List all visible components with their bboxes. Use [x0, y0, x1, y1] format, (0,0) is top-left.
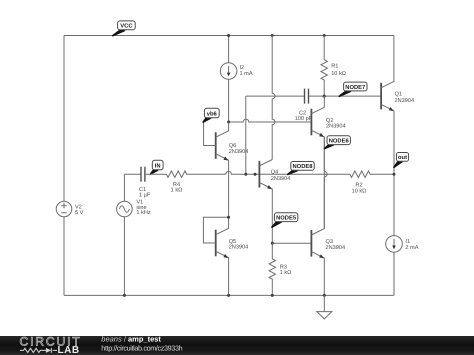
transistor Q5 diode connected	[203, 174, 228, 295]
junction dot out	[393, 173, 396, 176]
wire input row mid	[226, 171, 350, 174]
svg-text:IN: IN	[155, 163, 161, 169]
resistor R1	[321, 36, 327, 97]
node NODE8 flag	[288, 162, 314, 175]
svg-text:NODE8: NODE8	[293, 163, 314, 170]
transistor Q2	[311, 96, 324, 137]
capacitor C1	[141, 167, 145, 182]
node NODE5 flag	[272, 213, 298, 227]
svg-text:I1: I1	[405, 239, 410, 245]
wire input row	[124, 173, 141, 175]
transistor Q1	[381, 81, 394, 111]
junction dot bottom x272.3	[271, 294, 274, 297]
svg-text:1 µF: 1 µF	[139, 192, 151, 198]
wire bottom rail	[64, 294, 394, 296]
junction dot Q5 tie	[227, 216, 230, 219]
svg-text:out: out	[398, 155, 407, 161]
wire column x272 VCC to Q4 collector with hops	[272, 36, 275, 160]
transistor Q3	[311, 137, 324, 296]
current source I2	[220, 36, 237, 123]
node NODE7 flag	[339, 82, 367, 96]
svg-text:5 V: 5 V	[75, 210, 84, 216]
ground	[317, 295, 332, 319]
node vb6 flag	[203, 108, 219, 122]
svg-text:1 kHz: 1 kHz	[136, 209, 151, 216]
junction dot bottom x324.3	[323, 294, 326, 297]
svg-text:100 pF: 100 pF	[295, 116, 313, 122]
junction dot bottom x124.4	[123, 294, 126, 297]
logo resistor zigzag and diode	[20, 348, 57, 353]
wire top rail VCC	[64, 35, 394, 37]
svg-text:Q4: Q4	[271, 169, 278, 175]
wire left rail	[63, 36, 65, 296]
svg-text:NODE6: NODE6	[329, 138, 350, 145]
svg-text:2N3904: 2N3904	[229, 149, 249, 155]
svg-text:2N3904: 2N3904	[326, 245, 346, 251]
svg-text:2N3904: 2N3904	[271, 176, 291, 182]
junction dot NODE5	[271, 242, 274, 245]
junction dot top rail x272.2	[271, 34, 274, 37]
sine source V1	[117, 174, 133, 295]
wire right out column	[393, 36, 395, 296]
junction dot bottom x228.6	[227, 294, 230, 297]
svg-text:NODE5: NODE5	[276, 215, 297, 222]
voltage source V2	[56, 201, 72, 217]
svg-text:vb6: vb6	[207, 110, 218, 117]
svg-text:LAB: LAB	[58, 345, 80, 355]
capacitor C2	[246, 89, 309, 104]
wire Q2 base row with hop over x246	[229, 119, 312, 122]
junction dot top rail x228.6	[227, 34, 230, 37]
svg-text:2N3904: 2N3904	[395, 98, 415, 104]
wire NODE6 column hop over input row	[324, 137, 327, 229]
transistor Q4	[259, 160, 272, 244]
svg-text:http://circuitlab.com/cz3933h: http://circuitlab.com/cz3933h	[101, 344, 182, 353]
junction dot Q4 base	[254, 173, 257, 176]
svg-text:NODE7: NODE7	[345, 84, 365, 91]
resistor R4	[145, 171, 226, 177]
junction dot C2 column	[244, 173, 247, 176]
wire NODE7 row	[309, 95, 382, 97]
svg-text:Q1: Q1	[395, 91, 402, 97]
node NODE6 flag	[325, 136, 351, 149]
svg-text:2 mA: 2 mA	[405, 245, 418, 251]
resistor R3	[269, 243, 275, 295]
wire NODE5 to Q3 base	[272, 242, 311, 244]
wire column x246 C2 to input row	[245, 96, 247, 174]
node VCC flag	[113, 21, 135, 36]
current source I1	[386, 236, 403, 253]
footer bar	[0, 336, 474, 355]
svg-text:2N3904: 2N3904	[229, 245, 249, 251]
node out flag	[394, 153, 409, 168]
svg-text:10 kΩ: 10 kΩ	[352, 187, 367, 194]
transistor Q6	[204, 122, 229, 174]
junction dot top rail x324.2	[323, 34, 326, 37]
svg-text:VCC: VCC	[120, 23, 133, 30]
svg-text:beans / amp_test: beans / amp_test	[101, 334, 161, 343]
svg-text:10 kΩ: 10 kΩ	[331, 70, 346, 77]
junction dot R1 bottom	[323, 95, 326, 98]
svg-text:1 mA: 1 mA	[240, 71, 253, 77]
svg-text:R1: R1	[331, 64, 338, 70]
node IN flag	[150, 160, 163, 174]
svg-text:2N3904: 2N3904	[326, 124, 346, 130]
resistor R2	[350, 171, 394, 177]
svg-text:1 kΩ: 1 kΩ	[171, 187, 183, 194]
junction dot I2-Q6-Q2	[227, 121, 230, 124]
svg-text:1 kΩ: 1 kΩ	[280, 269, 292, 276]
